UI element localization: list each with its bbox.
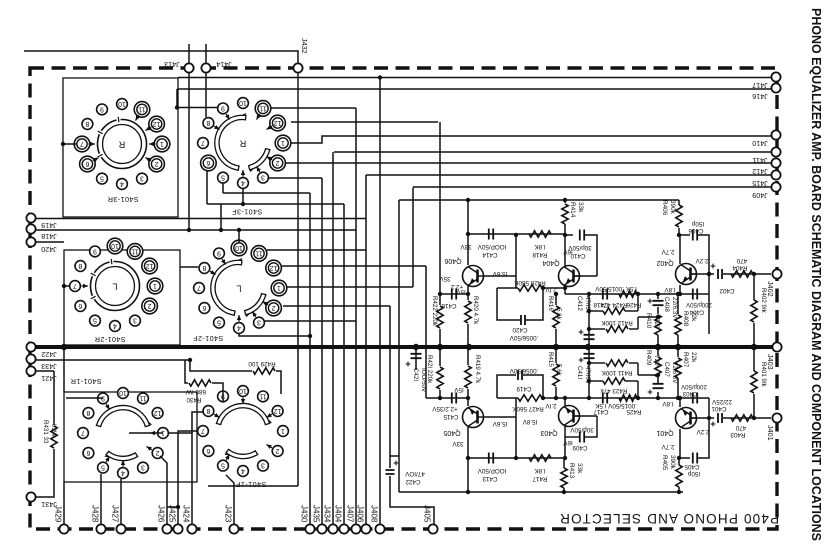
junction	[466, 456, 470, 460]
svg-text:J413: J413	[164, 60, 180, 69]
svg-text:390k: 390k	[669, 200, 676, 215]
junction	[677, 233, 681, 237]
junction	[554, 396, 558, 400]
terminal J411	[771, 147, 780, 156]
switch S401-2F pin 5	[214, 317, 225, 328]
junction	[752, 416, 756, 420]
wire Q403 base	[574, 415, 597, 417]
svg-text:S401-1R: S401-1R	[70, 377, 101, 386]
svg-text:470: 470	[736, 257, 747, 264]
svg-text:J404: J404	[334, 505, 343, 523]
svg-text:R409: R409	[645, 350, 652, 366]
wire R411 left	[589, 362, 605, 364]
switch S401-3R pin 1 wiper arrow	[149, 143, 156, 145]
wire C409 left	[565, 436, 579, 438]
terminal J425	[173, 524, 182, 533]
svg-text:S401-2R: S401-2R	[94, 335, 125, 344]
wire R416 top	[555, 294, 557, 305]
switch S401-1F pin 4	[238, 466, 249, 477]
resistor R410	[655, 315, 661, 335]
svg-text:2.7V: 2.7V	[661, 443, 675, 450]
terminal J431	[26, 492, 35, 501]
wire R406 top	[678, 200, 680, 205]
terminal J413	[184, 63, 193, 72]
wire net J420	[31, 241, 64, 243]
junction	[676, 396, 680, 400]
wire C420 loop left	[497, 288, 521, 320]
junction	[563, 456, 567, 460]
svg-text:J421: J421	[41, 374, 57, 383]
svg-text:22/6.3V: 22/6.3V	[671, 297, 678, 319]
svg-text:Q402: Q402	[656, 259, 673, 266]
wire C415 row	[426, 397, 468, 399]
switch S401-3R pin 11	[134, 102, 150, 118]
wire C419 loop left	[497, 375, 516, 398]
terminal J404	[339, 524, 348, 533]
terminal J434	[328, 524, 337, 533]
switch S401-1R pin 3	[138, 462, 149, 473]
switch S401-1F pin 8 wiper arrow	[214, 414, 220, 417]
svg-text:S401-1F: S401-1F	[236, 480, 267, 489]
wire R419 top	[467, 347, 469, 365]
svg-text:R425: R425	[626, 408, 642, 415]
bus junction	[675, 344, 681, 350]
svg-text:C41I: C41I	[576, 366, 583, 379]
svg-text:J408: J408	[370, 505, 379, 523]
svg-text:R405: R405	[661, 455, 668, 471]
wire net to J410	[289, 136, 771, 143]
svg-text:.0056/50V: .0056/50V	[509, 367, 539, 374]
wire S401-1F pin8 to riser	[192, 412, 204, 433]
svg-text:R418: R418	[532, 251, 548, 258]
terminal J410	[771, 130, 780, 139]
bus junction	[751, 344, 757, 350]
bus junction	[585, 344, 591, 350]
switch S401-1F pin 11	[258, 391, 269, 402]
switch S401-1F pin 6	[203, 446, 214, 457]
capacitor C418	[603, 289, 607, 300]
terminal J402	[772, 269, 781, 278]
svg-text:12: 12	[153, 120, 161, 127]
svg-text:J409: J409	[752, 191, 768, 200]
junction	[656, 292, 660, 296]
switch S401-3F pin 11	[255, 101, 271, 117]
wire S401-3F pin5 drop	[222, 183, 224, 193]
svg-text:J402: J402	[766, 281, 775, 297]
junction	[707, 272, 711, 276]
wire C410 left	[565, 234, 573, 236]
resistor R405	[676, 465, 682, 487]
junction	[636, 292, 640, 296]
svg-text:R415: R415	[547, 352, 554, 367]
svg-text:22/25V: 22/25V	[711, 398, 732, 405]
junction	[677, 456, 681, 460]
terminal J429	[59, 524, 68, 533]
svg-text:2.IV: 2.IV	[545, 402, 557, 409]
terminal J432	[293, 63, 302, 72]
svg-text:5.6k: 5.6k	[555, 308, 562, 321]
svg-text:2: 2	[155, 160, 159, 167]
svg-text:J407: J407	[346, 505, 355, 523]
junction	[188, 358, 192, 362]
terminal J406	[361, 524, 370, 533]
rotary switch rotor arcs	[219, 406, 268, 424]
junction	[175, 105, 179, 109]
wire R410 bottom	[657, 335, 659, 347]
switch S401-2R pin 1	[147, 278, 163, 294]
wire Q401 collector down	[679, 429, 681, 458]
bus junction	[466, 344, 472, 350]
rotary switch rotor arcs	[99, 408, 148, 426]
svg-text:11: 11	[255, 249, 262, 256]
wire riser to J430	[309, 193, 311, 525]
svg-text:6: 6	[86, 449, 90, 456]
svg-text:47/IOV: 47/IOV	[404, 470, 424, 477]
capacitor C413	[489, 453, 493, 464]
switch S401-3R pin 8	[82, 119, 93, 130]
switch S401-1R pin 5	[98, 462, 109, 473]
switch S401-3F pin 12	[270, 115, 286, 131]
svg-text:3: 3	[261, 174, 265, 181]
switch S401-3R pin 10	[117, 99, 128, 110]
rotary switch S401-2R outline box	[64, 250, 180, 345]
svg-text:5: 5	[221, 174, 225, 181]
terminal J414	[201, 63, 210, 72]
svg-text:I/2W: I/2W	[50, 424, 57, 437]
svg-text:5: 5	[217, 319, 221, 326]
wire J414 stub	[205, 44, 207, 63]
wire R423 link down	[637, 381, 639, 398]
svg-text:5: 5	[93, 317, 97, 324]
svg-text:J429: J429	[54, 505, 63, 523]
svg-text:12: 12	[274, 119, 282, 126]
svg-text:R430: R430	[186, 396, 202, 403]
svg-text:R414: R414	[569, 202, 576, 218]
resistor R417	[529, 455, 551, 461]
svg-text:12: 12	[270, 264, 278, 271]
wire to bottom rail	[467, 458, 469, 492]
switch S401-2R pin 7	[70, 281, 81, 292]
wire net J418	[31, 229, 356, 231]
svg-text:30p/50V: 30p/50V	[569, 426, 593, 433]
svg-text:10: 10	[235, 244, 243, 251]
svg-text:4: 4	[241, 179, 245, 186]
switch S401-2F pin 1	[271, 280, 287, 296]
junction	[656, 315, 660, 319]
svg-text:2.IV: 2.IV	[545, 286, 557, 293]
svg-text:R401 9Ik: R401 9Ik	[760, 362, 767, 388]
wire S401-3R pin7	[63, 143, 77, 145]
wire S401-2F pin10 up	[238, 230, 240, 243]
wire R430 left	[185, 360, 188, 383]
svg-text:1: 1	[160, 140, 164, 147]
svg-text:10: 10	[111, 242, 119, 249]
switch S401-3R pin 5	[97, 173, 108, 184]
svg-text:C415: C415	[443, 413, 459, 420]
svg-text:C417: C417	[593, 408, 609, 415]
junction	[237, 228, 241, 232]
terminal J422	[26, 342, 35, 351]
switch S401-1F pin 2	[272, 446, 283, 457]
terminal J418	[26, 224, 35, 233]
switch S401-3F pin 2	[270, 155, 286, 171]
switch S401-1R pin 1	[158, 428, 169, 439]
svg-text:R431 33: R431 33	[42, 420, 49, 444]
svg-text:8: 8	[78, 262, 82, 269]
wire S401-1F box right	[297, 400, 299, 486]
wire R411 right	[629, 362, 638, 364]
wire amp bottom rail	[399, 491, 683, 493]
svg-text:3: 3	[257, 319, 261, 326]
svg-text:11: 11	[131, 247, 138, 254]
switch S401-2F pin 9 wiper arrow	[222, 259, 225, 265]
wire net J432 feed	[24, 51, 298, 63]
svg-text:C404: C404	[689, 309, 704, 315]
wire Q405 collector down	[467, 427, 469, 458]
wire amp left edge	[398, 200, 400, 492]
wire Q403 collector down	[564, 426, 566, 458]
resistor R430	[189, 380, 211, 386]
wire S401-2R pin7	[64, 285, 70, 287]
switch S401-2F pin 9	[214, 248, 225, 259]
wire Q402 collector up	[679, 235, 681, 264]
svg-text:2: 2	[156, 449, 160, 456]
switch S401-2R pin 5	[90, 315, 101, 326]
resistor R402	[751, 300, 757, 322]
switch S401-1R pin 12	[152, 408, 163, 419]
wire Q402 base out	[691, 273, 714, 275]
svg-text:.0056/50V: .0056/50V	[509, 334, 539, 341]
wire C414-R418 row	[468, 233, 564, 235]
svg-text:J433: J433	[41, 362, 57, 371]
svg-text:IOO/50V: IOO/50V	[420, 368, 427, 393]
svg-text:I5V: I5V	[453, 386, 463, 393]
switch S401-2R pin 12	[142, 258, 158, 274]
svg-text:1: 1	[277, 284, 281, 291]
junction	[187, 228, 191, 232]
capacitor C416	[452, 289, 456, 300]
switch S401-3F pin 7	[198, 138, 209, 149]
junction	[678, 396, 682, 400]
wire R413 top	[563, 458, 565, 468]
wire R419 bottom	[467, 389, 469, 406]
svg-text:J432: J432	[300, 38, 309, 54]
wire C409 right	[585, 416, 597, 437]
svg-text:390k: 390k	[669, 455, 676, 470]
wire C406 right column	[698, 235, 709, 334]
svg-text:R429 100: R429 100	[248, 360, 276, 367]
junction	[514, 233, 518, 237]
terminal J412	[771, 158, 780, 167]
resistor R431	[51, 426, 57, 448]
svg-text:3: 3	[141, 464, 145, 471]
svg-text:C413: C413	[482, 475, 498, 482]
resistor R401	[751, 371, 757, 393]
svg-text:C412: C412	[576, 296, 583, 311]
wire Q405 base	[484, 416, 516, 418]
svg-text:S401-3F: S401-3F	[232, 208, 263, 217]
switch S401-1R pin 8	[83, 408, 94, 419]
svg-text:6: 6	[206, 447, 210, 454]
wire R428 to Q404	[542, 287, 565, 289]
wire C407 bottom	[657, 392, 659, 398]
switch S401-2R pin 3	[130, 315, 141, 326]
svg-text:C42I: C42I	[412, 368, 419, 381]
switch S401-2R pin 7 wiper arrow	[82, 285, 89, 287]
svg-text:7: 7	[80, 140, 84, 147]
svg-text:I.8K: I.8K	[534, 467, 546, 474]
wire net to J417	[178, 77, 771, 79]
svg-text:33V: 33V	[460, 243, 472, 250]
resistor R404	[731, 271, 753, 277]
switch S401-1F pin 3	[258, 460, 269, 471]
switch S401-3R pin 4	[117, 179, 128, 190]
wire Q404 collector	[564, 224, 566, 266]
svg-text:J424: J424	[182, 505, 191, 523]
svg-text:IOOP/50V: IOOP/50V	[477, 243, 506, 250]
capacitor C415	[452, 393, 456, 404]
board outline dashed border	[30, 68, 777, 529]
switch S401-1R pin 2 wiper arrow	[146, 447, 152, 450]
switch S401-3R pin 9	[97, 104, 108, 115]
wire to J427	[120, 479, 122, 525]
wire R427 row left	[497, 397, 518, 399]
svg-text:33k: 33k	[576, 463, 583, 474]
switch S401-3R pin 1	[154, 136, 170, 152]
junction	[219, 228, 223, 232]
bus junction	[413, 344, 419, 350]
resistor R403	[731, 415, 753, 421]
junction	[241, 202, 245, 206]
capacitor C420	[521, 315, 525, 325]
svg-text:7: 7	[197, 284, 201, 291]
capacitor C419	[518, 370, 522, 380]
resistor R424	[603, 308, 625, 314]
svg-text:11: 11	[138, 105, 145, 112]
wire net to J411	[334, 151, 771, 153]
resistor R409	[655, 357, 661, 377]
wire C408-R410	[657, 307, 659, 314]
wire S401-3F pin6 drop	[206, 169, 208, 204]
resistor R418	[529, 231, 551, 237]
wire R409-C407	[657, 377, 659, 383]
wire R421 bottom	[439, 390, 441, 398]
switch S401-2R pin 6	[75, 301, 86, 312]
wire Q404 emitter	[564, 286, 566, 294]
terminal J403	[772, 342, 781, 351]
junction	[62, 284, 66, 288]
terminal J405	[428, 524, 437, 533]
svg-text:J405: J405	[423, 505, 432, 523]
wire R421 top	[439, 347, 441, 366]
switch S401-2R pin 10	[107, 238, 123, 254]
switch S401-2F pin 3	[254, 317, 265, 328]
wire Q406 base	[484, 275, 516, 277]
transistor Q404	[559, 266, 580, 287]
svg-text:I.8V: I.8V	[662, 400, 674, 407]
wire S401-2F pin1 net	[287, 286, 413, 288]
svg-text:R420 4.7k: R420 4.7k	[472, 296, 479, 325]
capacitor C408	[653, 301, 664, 305]
switch S401-3F pin 5	[218, 172, 229, 183]
switch S401-2F pin 12	[266, 260, 282, 276]
svg-text:2: 2	[276, 447, 280, 454]
switch S401-1F pin 8	[203, 406, 214, 417]
switch S401-3F pin 1	[275, 135, 291, 151]
wire R424 link up	[637, 294, 639, 311]
svg-text:I6V: I6V	[562, 248, 572, 255]
svg-text:R419 4.7k: R419 4.7k	[474, 355, 481, 384]
svg-text:R407: R407	[682, 352, 689, 368]
terminal J420	[26, 237, 35, 246]
svg-text:R417: R417	[532, 475, 548, 482]
svg-text:4: 4	[121, 469, 125, 476]
svg-text:1: 1	[281, 427, 285, 434]
svg-text:R408: R408	[682, 311, 689, 327]
svg-text:8: 8	[206, 407, 210, 414]
resistor R412	[606, 326, 628, 332]
svg-text:C405: C405	[684, 463, 700, 470]
svg-text:R404: R404	[732, 264, 748, 271]
switch S401-3F pin 3 wiper arrow	[257, 166, 260, 172]
wire Q406 collector	[467, 200, 469, 265]
svg-text:J419: J419	[41, 221, 57, 230]
wire net J433	[31, 359, 190, 361]
svg-text:10: 10	[239, 387, 247, 394]
junction	[466, 396, 470, 400]
svg-text:11: 11	[259, 104, 266, 111]
rotary switch rotor arcs	[217, 117, 246, 168]
wire input drop to C415	[425, 266, 427, 398]
terminal J426	[162, 524, 171, 533]
svg-text:720: 720	[653, 355, 660, 366]
wire S401-2F pin4 to riser	[239, 334, 310, 336]
resistor R425	[619, 395, 637, 401]
svg-text:J411: J411	[752, 156, 767, 165]
rotary switch rotor	[91, 262, 140, 311]
wire net to J416	[177, 88, 771, 90]
svg-text:11: 11	[259, 392, 266, 399]
svg-text:I5.6V: I5.6V	[492, 420, 508, 427]
wire C421 col	[415, 347, 417, 370]
wire S401-3F pin4 drop	[242, 189, 244, 204]
rotary switch S401-1R outline box	[64, 392, 197, 482]
svg-text:R412 100K: R412 100K	[600, 319, 632, 326]
svg-text:3: 3	[133, 317, 137, 324]
svg-text:12: 12	[146, 262, 154, 269]
switch S401-1R pin 11	[138, 393, 149, 404]
junction	[636, 396, 640, 400]
junction	[378, 75, 382, 79]
svg-text:R: R	[239, 139, 246, 149]
wire R415 top	[555, 347, 557, 363]
wire net J421	[31, 370, 54, 372]
junction	[438, 292, 442, 296]
wire riser to J408	[379, 78, 381, 526]
transistor Q401	[676, 408, 697, 429]
wire riser to J435	[321, 178, 323, 525]
switch S401-3R pin 7 wiper arrow	[89, 143, 96, 145]
resistor R416	[553, 306, 559, 328]
svg-text:8: 8	[206, 119, 210, 126]
svg-text:R428 560K: R428 560K	[513, 279, 545, 286]
wire drop from J409 net to input	[412, 188, 414, 288]
svg-text:9: 9	[217, 249, 221, 256]
switch S401-2F pin 7	[194, 283, 205, 294]
wire amp supply rail top	[399, 199, 679, 201]
terminal J417	[771, 72, 780, 81]
switch S401-1F pin 2 wiper arrow	[266, 445, 272, 448]
